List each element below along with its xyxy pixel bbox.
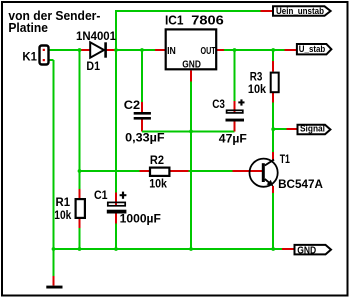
diode D1: [76, 31, 117, 73]
svg-text:Uein_unstab: Uein_unstab: [276, 6, 324, 17]
capacitor C1 (electrolytic): [94, 190, 161, 226]
svg-text:7806: 7806: [191, 12, 224, 27]
node: junction rail R1: [78, 247, 82, 251]
resistor R1: [54, 197, 85, 222]
wire: D1 cathode to IC1 IN y=50: [106, 49, 166, 51]
svg-text:10k: 10k: [149, 178, 167, 190]
node: flag U_stab: [297, 44, 332, 55]
node: flag Signal: [298, 124, 331, 135]
wire: vertical through C3 x=234.5: [234, 50, 236, 131]
resistor R3: [248, 71, 279, 95]
svg-text:IN: IN: [167, 46, 176, 57]
svg-text:1000µF: 1000µF: [120, 214, 161, 226]
svg-text:C1: C1: [94, 190, 108, 202]
wire: net Uein top horizontal y=11: [116, 10, 274, 12]
node: junction rail GND line: [189, 247, 193, 251]
node: junction K1/D1/R1: [78, 48, 82, 52]
resistor R2: [149, 155, 169, 190]
wire: vertical through R1 x=79.5: [79, 50, 81, 250]
node: junction rail C1: [114, 247, 118, 251]
wire: R3 bottom to T1 collector x=272.5: [272, 129, 274, 160]
wire: T1 emitter down to rail x=272.5: [272, 186, 274, 250]
node: junction GND mid: [189, 130, 193, 134]
node: junction C3 top: [233, 48, 237, 52]
wire: base net R2 to T1 y=171: [80, 170, 263, 172]
wire: vertical through C2 x=142: [141, 50, 143, 131]
node: flag GND: [295, 245, 332, 256]
node: junction rail left: [52, 247, 56, 251]
wire: IC1 GND pin down x=191: [190, 71, 192, 251]
svg-text:10k: 10k: [248, 84, 267, 96]
wire: vertical through R3 x=272.5: [272, 50, 274, 129]
wire: bottom GND rail y=249: [54, 248, 295, 250]
svg-text:GND: GND: [297, 245, 316, 256]
svg-text:T1: T1: [280, 154, 291, 166]
svg-text:OUT: OUT: [201, 46, 216, 57]
capacitor C2: [124, 100, 165, 145]
wire: IC1 OUT to U_stab flag y=50: [217, 49, 298, 51]
wire: rail to ground symbol x=53.5: [53, 249, 55, 286]
wire: Signal flag branch y=130: [273, 128, 297, 130]
svg-text:R2: R2: [150, 155, 164, 167]
svg-text:1N4001: 1N4001: [76, 31, 117, 43]
node: junction C2 top: [140, 48, 144, 52]
svg-text:R1: R1: [56, 197, 71, 209]
node: junction R3 top: [271, 48, 275, 52]
wire: K1 bottom pin down x=53.5: [45, 60, 54, 250]
svg-text:10k: 10k: [54, 210, 72, 222]
node: title text: [8, 8, 100, 35]
node: flag Uein_unstab: [273, 6, 331, 17]
node: junction rail emitter: [271, 247, 275, 251]
capacitor C3 (electrolytic): [212, 99, 247, 146]
svg-text:C2: C2: [124, 100, 140, 112]
node: junction R2 left: [78, 169, 82, 173]
wire: C2 bottom to C3 bottom horizontal y=130: [142, 130, 235, 132]
svg-text:Platine: Platine: [8, 20, 48, 35]
connector K1: [22, 46, 48, 65]
svg-text:BC547A: BC547A: [278, 179, 323, 191]
svg-text:D1: D1: [86, 61, 100, 73]
wire: K1 top pin to D1 anode y=50: [45, 49, 90, 51]
ground: [46, 286, 62, 289]
svg-text:47µF: 47µF: [219, 133, 247, 145]
svg-text:U_stab: U_stab: [299, 44, 326, 55]
node: junction D1 cathode / Uein: [114, 48, 118, 52]
svg-text:Signal: Signal: [300, 124, 325, 135]
transistor T1 BC547A: [250, 154, 323, 191]
svg-text:R3: R3: [250, 71, 263, 83]
svg-text:K1: K1: [22, 52, 37, 64]
svg-text:C3: C3: [212, 99, 225, 111]
node: junction R3 bottom / Signal: [271, 127, 275, 131]
wire: vertical Uein net x=116 down through C1 to rail: [115, 10, 117, 250]
svg-text:0,33µF: 0,33µF: [125, 133, 164, 145]
svg-text:GND: GND: [182, 59, 201, 70]
svg-text:IC1: IC1: [165, 12, 184, 27]
op-amp/regulator IC1 7806: [165, 12, 224, 70]
